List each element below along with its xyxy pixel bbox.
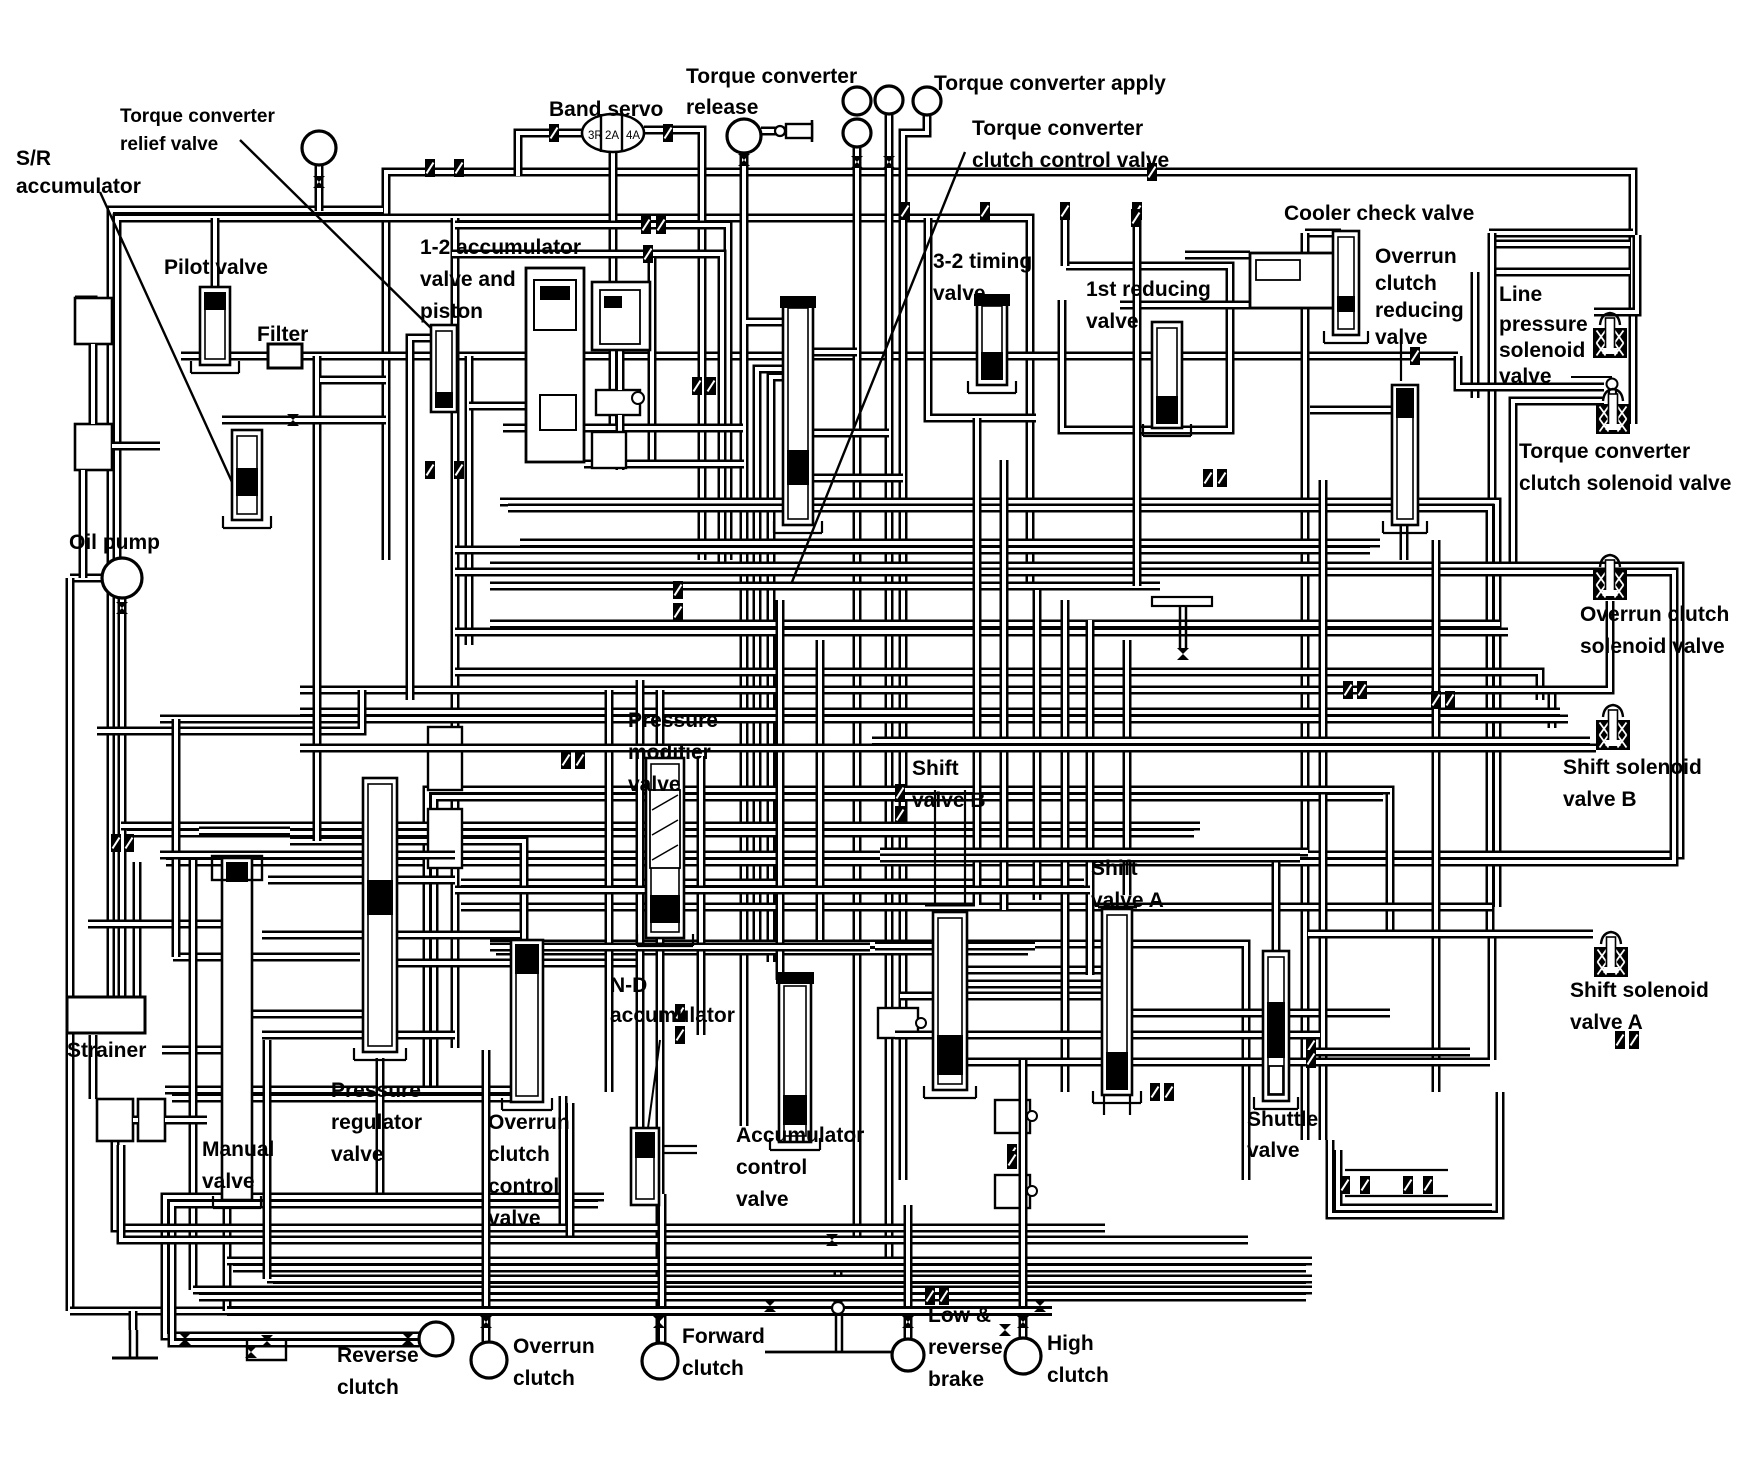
svg-text:valve: valve <box>1375 326 1428 349</box>
svg-text:Overrun: Overrun <box>488 1111 570 1134</box>
svg-text:modifier: modifier <box>628 741 711 764</box>
svg-text:Torque converter apply: Torque converter apply <box>934 72 1166 95</box>
svg-text:solenoid: solenoid <box>1499 339 1585 362</box>
svg-text:valve: valve <box>933 282 986 305</box>
svg-text:N-D: N-D <box>610 974 647 997</box>
svg-text:regulator: regulator <box>331 1111 422 1134</box>
svg-text:valve: valve <box>331 1143 384 1166</box>
svg-text:Forward: Forward <box>682 1325 765 1348</box>
svg-text:control: control <box>736 1156 807 1179</box>
svg-text:Overrun: Overrun <box>513 1335 595 1358</box>
svg-text:clutch: clutch <box>337 1376 399 1399</box>
svg-text:valve: valve <box>628 773 681 796</box>
svg-text:2A: 2A <box>605 130 619 142</box>
svg-text:clutch: clutch <box>488 1143 550 1166</box>
svg-text:release: release <box>686 96 758 119</box>
svg-text:accumulator: accumulator <box>16 175 141 198</box>
svg-text:reducing: reducing <box>1375 299 1464 322</box>
svg-text:Accumulator: Accumulator <box>736 1124 864 1147</box>
svg-text:clutch control valve: clutch control valve <box>972 149 1169 172</box>
svg-text:Strainer: Strainer <box>67 1039 146 1062</box>
svg-text:Torque converter: Torque converter <box>1519 440 1690 463</box>
svg-text:valve: valve <box>1499 365 1552 388</box>
svg-text:accumulator: accumulator <box>610 1004 735 1027</box>
svg-text:piston: piston <box>420 300 483 323</box>
svg-text:Oil pump: Oil pump <box>69 531 160 554</box>
svg-text:valve: valve <box>1086 310 1139 333</box>
svg-text:valve: valve <box>202 1170 255 1193</box>
svg-text:S/R: S/R <box>16 147 51 170</box>
svg-text:High: High <box>1047 1332 1094 1355</box>
svg-text:1st reducing: 1st reducing <box>1086 278 1211 301</box>
svg-text:Overrun: Overrun <box>1375 245 1457 268</box>
svg-text:valve A: valve A <box>1091 889 1164 912</box>
svg-text:Shift: Shift <box>1091 857 1138 880</box>
svg-text:control: control <box>488 1175 559 1198</box>
svg-text:relief valve: relief valve <box>120 134 218 155</box>
svg-text:Pilot valve: Pilot valve <box>164 256 268 279</box>
svg-text:1-2 accumulator: 1-2 accumulator <box>420 236 581 259</box>
svg-text:3R: 3R <box>588 130 603 142</box>
svg-text:Torque converter: Torque converter <box>120 106 275 127</box>
svg-text:valve: valve <box>736 1188 789 1211</box>
svg-text:Low &: Low & <box>928 1304 991 1327</box>
svg-text:Shift: Shift <box>912 757 959 780</box>
svg-text:Shift solenoid: Shift solenoid <box>1570 979 1709 1002</box>
svg-text:valve and: valve and <box>420 268 516 291</box>
svg-text:valve: valve <box>488 1207 541 1230</box>
svg-text:Band servo: Band servo <box>549 98 663 121</box>
svg-text:valve A: valve A <box>1570 1011 1643 1034</box>
svg-text:Shuttle: Shuttle <box>1247 1108 1318 1131</box>
svg-text:Filter: Filter <box>257 323 308 346</box>
svg-text:Overrun clutch: Overrun clutch <box>1580 603 1729 626</box>
svg-text:Manual: Manual <box>202 1138 274 1161</box>
svg-text:pressure: pressure <box>1499 313 1588 336</box>
svg-text:Line: Line <box>1499 283 1542 306</box>
svg-text:valve: valve <box>1247 1139 1300 1162</box>
svg-text:3-2 timing: 3-2 timing <box>933 250 1032 273</box>
svg-text:Torque converter: Torque converter <box>972 117 1143 140</box>
svg-text:Cooler check valve: Cooler check valve <box>1284 202 1474 225</box>
svg-text:Reverse: Reverse <box>337 1344 419 1367</box>
svg-text:Pressure: Pressure <box>628 709 718 732</box>
svg-text:Shift solenoid: Shift solenoid <box>1563 756 1702 779</box>
svg-text:reverse: reverse <box>928 1336 1003 1359</box>
svg-text:clutch: clutch <box>682 1357 744 1380</box>
svg-text:valve B: valve B <box>1563 788 1637 811</box>
svg-text:clutch: clutch <box>1375 272 1437 295</box>
svg-text:solenoid valve: solenoid valve <box>1580 635 1725 658</box>
svg-text:Pressure: Pressure <box>331 1079 421 1102</box>
svg-text:valve B: valve B <box>912 789 986 812</box>
svg-text:brake: brake <box>928 1368 984 1391</box>
svg-text:clutch: clutch <box>513 1367 575 1390</box>
svg-text:Torque converter: Torque converter <box>686 65 857 88</box>
svg-text:4A: 4A <box>626 130 640 142</box>
svg-text:clutch solenoid valve: clutch solenoid valve <box>1519 472 1731 495</box>
svg-text:clutch: clutch <box>1047 1364 1109 1387</box>
